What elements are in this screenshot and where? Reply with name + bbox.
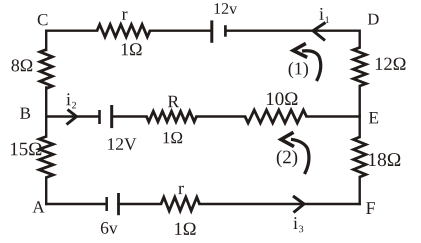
- wire C top-left corner to resistor r: [46, 31, 97, 50]
- current arrow i2 (points right, on middle wire): [67, 110, 77, 125]
- battery 12V middle: short plate: [98, 110, 101, 124]
- label 1ohm of middle resistor: [163, 132, 182, 143]
- resistor r bottom 1ohm zigzag: [161, 197, 200, 211]
- label i3 current: [293, 217, 297, 229]
- wire left between 15ohm and node A: [45, 178, 47, 205]
- label R of middle resistor: [168, 96, 179, 107]
- label (2) loop: [277, 150, 297, 167]
- resistor R 1ohm zigzag: [147, 111, 197, 121]
- battery 12V middle: long plate: [110, 105, 113, 128]
- label (1) loop: [289, 62, 308, 78]
- battery 12v top: long plate: [210, 20, 213, 42]
- loop arrow (1) curved counter-clockwise: [302, 51, 321, 81]
- battery 6v bottom: short plate: [105, 197, 108, 211]
- current arrow i1 (points left, on top wire): [313, 23, 326, 41]
- resistor 8ohm zigzag: [40, 50, 52, 89]
- wire left between 8ohm and node B: [45, 88, 47, 137]
- resistor 12ohm zigzag: [353, 48, 366, 87]
- wire right 18ohm to node F: [359, 177, 361, 204]
- label 6v of bottom battery: [101, 222, 118, 234]
- node B: [20, 108, 30, 119]
- label 12ohm: [376, 58, 406, 70]
- wire middle between 10ohm and node E: [307, 115, 360, 117]
- label r of top resistor: [122, 11, 127, 19]
- wire bottom between resistor r and node F: [200, 203, 360, 205]
- wire bottom between 6v battery and resistor r: [119, 203, 162, 205]
- node C: [38, 14, 48, 25]
- label 12v of top battery: [215, 3, 238, 14]
- wire middle between 12V battery and resistor R: [113, 115, 147, 117]
- current arrow i3 (points right, on bottom wire): [293, 196, 304, 213]
- wire right node D branch: 12ohm to node E: [359, 86, 361, 137]
- label i1 current: [319, 8, 323, 20]
- resistor 15ohm zigzag: [39, 137, 53, 178]
- label 18ohm: [369, 153, 400, 166]
- battery 6v bottom: long plate: [117, 193, 120, 215]
- label 1ohm of top resistor: [122, 43, 142, 55]
- label 15ohm: [11, 143, 41, 156]
- resistor 10ohm zigzag: [245, 110, 307, 123]
- node E: [369, 112, 378, 123]
- label i2 current: [66, 93, 70, 105]
- label 8ohm: [11, 59, 32, 71]
- wire middle between resistor R and 10ohm: [197, 115, 246, 117]
- resistor 18ohm zigzag: [354, 137, 366, 177]
- label r of bottom resistor: [178, 186, 183, 194]
- node F: [366, 202, 375, 214]
- node D: [368, 14, 379, 25]
- wire middle node B to 12V battery: [46, 115, 98, 117]
- label 10ohm: [267, 92, 297, 105]
- node A: [33, 201, 45, 212]
- battery 12v top: short plate: [224, 25, 227, 37]
- label 12V of middle battery: [108, 138, 136, 150]
- loop arrow (2) curved counter-clockwise: [291, 139, 309, 174]
- wire bottom node A to 6v battery: [46, 203, 106, 205]
- label 1ohm of bottom resistor: [175, 223, 195, 235]
- wire top between resistor r and 12v battery: [150, 30, 210, 32]
- wire top between 12v battery and node D: [227, 31, 360, 48]
- resistor r top 1ohm zigzag: [97, 25, 150, 37]
